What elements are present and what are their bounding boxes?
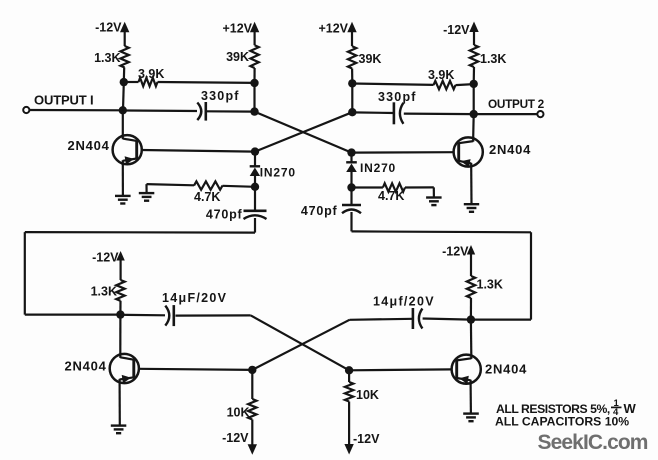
node collector Q4: [467, 315, 475, 323]
node C2 right coupling: [348, 108, 356, 116]
svg-text:-12V: -12V: [95, 21, 122, 35]
svg-text:+12V: +12V: [222, 22, 252, 36]
wire base Q3: [139, 369, 253, 370]
wire left bracket: [254, 218, 256, 233]
wire 1.3K to node: [123, 68, 126, 83]
svg-text:-12V: -12V: [353, 432, 380, 446]
wire output1: [30, 109, 123, 112]
node C left coupling: [250, 107, 258, 115]
resistor 1.3K bottom-left: [116, 280, 124, 301]
wire base Q1: [142, 150, 255, 152]
svg-text:1.3K: 1.3K: [94, 51, 120, 65]
svg-text:330pf: 330pf: [378, 90, 417, 104]
wire to diagonal left: [176, 314, 251, 316]
ground Q2 emitter: [464, 203, 479, 205]
wire emitter Q4 to ground: [470, 384, 472, 414]
ground Q1 emitter: [115, 195, 131, 197]
svg-text:SeekIC.com: SeekIC.com: [538, 431, 648, 454]
wire cross-couple C to right base: [255, 112, 352, 153]
svg-text:470pf: 470pf: [206, 207, 243, 221]
svg-text:10K: 10K: [356, 388, 379, 402]
node 1.3K/3.9K right: [473, 67, 475, 84]
svg-text:-12V: -12V: [92, 251, 119, 265]
svg-text:1.3K: 1.3K: [480, 52, 506, 66]
resistor 10K bottom-left: [251, 370, 253, 399]
wire right bracket: [350, 212, 352, 231]
svg-text:14μf/20V: 14μf/20V: [373, 295, 435, 309]
svg-text:2N404: 2N404: [68, 138, 110, 153]
svg-text:-12V: -12V: [222, 431, 249, 445]
svg-text:1.3K: 1.3K: [91, 284, 117, 298]
wire cross-couple to right base bottom: [251, 315, 349, 370]
svg-text:10K: 10K: [227, 406, 250, 420]
ground Q3 emitter: [111, 424, 127, 426]
wire emitter Q1 to ground: [122, 164, 124, 196]
svg-text:2N404: 2N404: [489, 142, 531, 157]
svg-text:3.9K: 3.9K: [138, 67, 164, 81]
svg-text:2N404: 2N404: [485, 362, 527, 377]
wire cross-couple C2 to left base: [255, 112, 352, 151]
resistor 1.3K bottom-right: [467, 276, 475, 298]
svg-text:470pf: 470pf: [301, 204, 338, 218]
wire emitter Q3 to ground: [118, 383, 120, 426]
svg-text:+12V: +12V: [318, 22, 348, 36]
svg-text:-12V: -12V: [443, 23, 470, 37]
svg-text:1.3K: 1.3K: [477, 278, 503, 292]
node base bottom-right: [345, 366, 353, 374]
wire 39K node to C: [253, 83, 255, 112]
ground 4.7K left: [145, 184, 147, 193]
wire 330pf to node C: [207, 110, 255, 112]
wire 39K node down right: [351, 83, 353, 112]
svg-text:2N404: 2N404: [65, 359, 107, 374]
svg-text:4.7K: 4.7K: [194, 190, 220, 204]
svg-text:ALL CAPACITORS 10%: ALL CAPACITORS 10%: [495, 414, 629, 428]
node collector Q1: [119, 106, 127, 114]
node base left: [251, 147, 259, 155]
resistor 10K bottom-right: [348, 370, 350, 382]
resistor 1.3K top-left: [120, 46, 128, 68]
svg-text:-12V: -12V: [442, 245, 469, 259]
ground Q4 emitter: [463, 412, 479, 414]
svg-text:14μF/20V: 14μF/20V: [162, 291, 227, 305]
node diode/4.7K left: [251, 183, 259, 191]
svg-text:39K: 39K: [226, 50, 249, 64]
wire cross-couple to left base bottom: [252, 320, 349, 370]
node collector Q2 / OUTPUT2: [470, 110, 478, 118]
resistor 39K right: [348, 46, 356, 68]
resistor 1.3K top-right: [470, 45, 478, 67]
svg-text:330pf: 330pf: [201, 89, 240, 103]
wire base Q2: [352, 151, 454, 154]
power -12V bottom-left-down: [251, 420, 253, 447]
wire base Q4: [349, 368, 452, 371]
svg-text:OUTPUT 2: OUTPUT 2: [488, 97, 545, 111]
node base bottom-left: [248, 366, 256, 374]
resistor 39K left: [250, 45, 258, 68]
ground 4.7K right: [433, 187, 435, 197]
svg-text:IN270: IN270: [260, 166, 296, 180]
wire emitter Q2 to ground: [470, 166, 472, 204]
svg-text:4.7K: 4.7K: [378, 189, 404, 203]
svg-text:IN270: IN270: [360, 161, 396, 175]
wire to 330pf: [123, 109, 197, 112]
node collector Q3: [116, 310, 124, 318]
node diode/4.7K right: [347, 183, 355, 191]
wire 3.9K to 39K node: [158, 81, 255, 84]
node 39K/3.9K left: [250, 79, 258, 87]
power -12V bottom-right-down: [348, 402, 350, 446]
node base right: [347, 148, 355, 156]
node 39K/3.9K right: [351, 69, 353, 84]
svg-text:39K: 39K: [359, 52, 382, 66]
svg-text:OUTPUT I: OUTPUT I: [34, 93, 93, 108]
node junction 3.9K/1.3K left: [120, 78, 128, 86]
